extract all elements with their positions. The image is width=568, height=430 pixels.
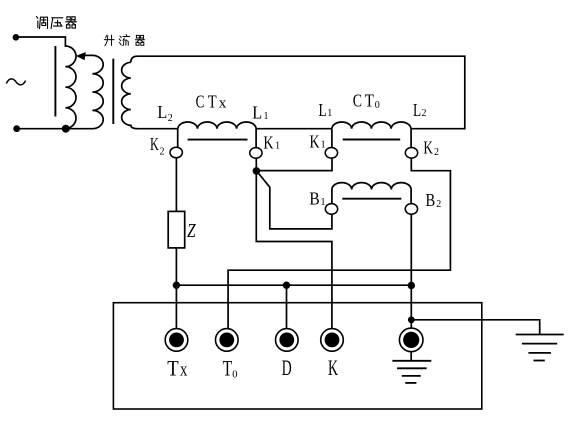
svg-text:B: B	[309, 189, 319, 209]
svg-text:D: D	[282, 355, 292, 380]
svg-text:K: K	[328, 355, 338, 380]
svg-text:x: x	[219, 96, 227, 112]
svg-text:2: 2	[160, 146, 165, 157]
svg-text:T: T	[365, 91, 374, 111]
svg-text:B: B	[426, 190, 436, 210]
svg-text:L: L	[413, 100, 421, 120]
svg-text:L: L	[252, 103, 262, 123]
svg-text:1: 1	[327, 108, 332, 119]
svg-text:1: 1	[321, 140, 326, 151]
svg-text:K: K	[423, 137, 433, 157]
svg-text:2: 2	[436, 199, 441, 210]
svg-text:C: C	[196, 92, 205, 112]
svg-text:T: T	[208, 92, 217, 112]
svg-text:1: 1	[264, 111, 269, 122]
svg-text:0: 0	[232, 370, 237, 381]
svg-text:K: K	[310, 132, 320, 152]
svg-text:L: L	[319, 100, 327, 120]
svg-text:T: T	[167, 356, 179, 381]
svg-text:1: 1	[321, 197, 326, 208]
svg-text:T: T	[223, 356, 233, 381]
svg-text:C: C	[353, 91, 362, 111]
svg-text:2: 2	[434, 147, 439, 158]
svg-text:Z: Z	[187, 220, 196, 242]
svg-text:0: 0	[375, 100, 380, 111]
svg-text:x: x	[180, 360, 188, 381]
svg-text:K: K	[150, 134, 159, 154]
svg-text:2: 2	[422, 108, 427, 119]
svg-text:K: K	[263, 133, 273, 153]
svg-text:L: L	[157, 102, 167, 122]
svg-text:2: 2	[168, 113, 173, 124]
svg-text:1: 1	[275, 141, 280, 152]
